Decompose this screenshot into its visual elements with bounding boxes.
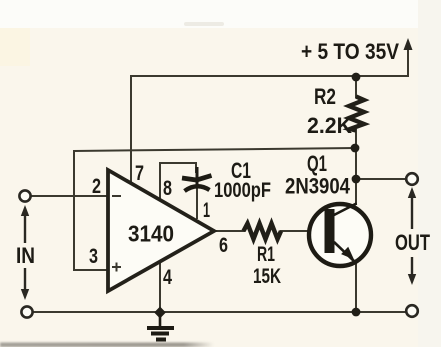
wire pin4: [159, 262, 161, 312]
supply arrow: [404, 38, 413, 50]
svg-text:OUT: OUT: [395, 230, 430, 255]
svg-text:R1: R1: [257, 243, 275, 266]
plus input mark: [112, 263, 121, 272]
wire pin8 stub: [160, 163, 196, 199]
wire R2 bottom lead: [355, 130, 357, 179]
wire feedback collector-to-pin3: [74, 148, 355, 151]
svg-text:2.2K: 2.2K: [307, 113, 352, 138]
node emitter/rail junction: [352, 308, 361, 317]
svg-text:7: 7: [135, 162, 144, 185]
OUT arrows: [408, 187, 416, 285]
terminal OUT bottom: [406, 305, 418, 317]
svg-text:8: 8: [163, 177, 172, 200]
svg-text:4: 4: [163, 266, 172, 289]
terminal IN top: [19, 190, 30, 201]
wire C1 bottom lead: [196, 188, 198, 218]
resistor R2: [349, 97, 364, 131]
wire left feedback vertical: [73, 151, 75, 270]
wire R2 top lead: [355, 76, 357, 97]
svg-text:2: 2: [92, 175, 101, 198]
svg-text:3: 3: [89, 245, 98, 268]
wire pin6 lead: [214, 230, 244, 232]
svg-text:Q1: Q1: [307, 151, 327, 176]
node collector/out junction: [352, 175, 361, 184]
svg-text:1000pF: 1000pF: [214, 179, 271, 202]
wire supply rail: [131, 47, 408, 76]
svg-text:IN: IN: [16, 243, 35, 268]
wire collector vertical: [355, 179, 357, 204]
op-amp U1 triangle: [108, 170, 214, 291]
wire R1 to base: [281, 230, 325, 232]
node supply/R2 junction: [352, 73, 361, 82]
wire pin3 lead: [74, 269, 108, 271]
minus input mark: [112, 195, 121, 197]
svg-text:15K: 15K: [253, 265, 281, 288]
capacitor C1: [182, 167, 212, 191]
svg-text:1: 1: [203, 199, 210, 222]
svg-text:3140: 3140: [128, 221, 174, 247]
faint smudge top: [184, 22, 224, 26]
wire pin7 to supply: [130, 76, 132, 183]
wire out top: [356, 178, 405, 180]
svg-text:R2: R2: [314, 84, 336, 109]
resistor R1: [244, 224, 282, 240]
svg-text:6: 6: [219, 234, 228, 257]
wire emitter vertical: [355, 262, 357, 312]
transistor Q1: [309, 203, 371, 266]
node ground junction: [154, 307, 166, 319]
svg-text:2N3904: 2N3904: [285, 174, 351, 199]
wire IN to pin2: [31, 195, 108, 197]
terminal OUT top: [406, 173, 418, 185]
IN arrows: [21, 205, 29, 300]
svg-text:+ 5 TO 35V: + 5 TO 35V: [301, 39, 399, 64]
wire bottom rail: [32, 311, 405, 313]
node R2/feedback junction: [351, 144, 360, 153]
ground: [147, 314, 174, 340]
terminal IN bottom: [21, 306, 32, 317]
